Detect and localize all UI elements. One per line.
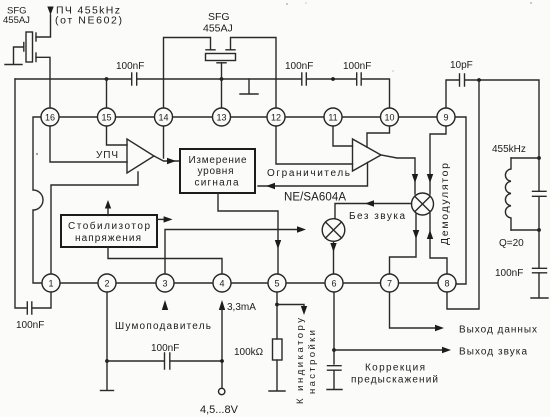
wire stabilizer up output [107,206,109,216]
capacitor C9 100nF right [533,268,547,273]
svg-text:14: 14 [158,113,168,123]
op-amp A1 УПЧ triangle [127,139,154,173]
wire pin15 to IF amp input [107,126,128,145]
filter Z1 right top electrode [35,33,37,41]
junction dot pin15 rail [105,77,109,81]
scan speck [530,2,532,4]
svg-text:7: 7 [387,279,392,289]
svg-text:Ограничитель: Ограничитель [267,168,350,179]
wire 10pF node down to pin8 [447,80,479,309]
svg-text:Q=20: Q=20 [499,238,524,249]
svg-text:К индикатору: К индикатору [295,318,306,404]
junction dot 10pF node [477,78,481,82]
svg-text:SFG: SFG [208,11,230,23]
wire pin15 external [106,79,108,108]
capacitor tank C [533,191,547,196]
pin 16 [41,108,59,126]
junction dot filter2 tap [220,77,224,81]
capacitor C6 100nF bottom [165,353,170,369]
junction dot tank top [537,156,541,160]
svg-text:3,3mA: 3,3mA [227,302,256,313]
wire cap C5 to pin1 [33,292,51,308]
ceramic filter Z1 SFG455AJ body [26,32,33,62]
arrowhead down into demod [412,174,418,183]
pin 9 [437,108,455,126]
svg-text:Шумоподавитель: Шумоподавитель [115,321,211,332]
svg-text:сигнала: сигнала [195,178,239,189]
ground pin2 [101,390,114,392]
wire pin6 down [333,292,335,364]
filter Z1 right bottom electrode [35,53,37,62]
arrowhead supply up to pin4 [219,300,225,310]
chip U1 body outline right edge [455,117,466,284]
ceramic filter Z2 SFG455AJ body [206,54,236,61]
wire demod to pin7 [390,214,417,275]
svg-text:уровня: уровня [198,166,234,177]
svg-text:100nF: 100nF [285,61,313,72]
ground right [531,297,548,299]
wire pin7 data output [390,292,437,328]
svg-text:Стобилизотор: Стобилизотор [68,220,150,232]
capacitor C4 10pF [460,74,465,86]
pin 10 [381,108,399,126]
svg-text:4,5...8V: 4,5...8V [200,404,239,416]
svg-text:11: 11 [328,113,337,123]
wire pin12 to limiter input [276,126,353,164]
filter Z1 left electrode [23,43,25,52]
junction dot pin6 output [332,348,336,352]
svg-text:100nF: 100nF [343,61,371,72]
svg-text:455AJ: 455AJ [3,15,30,26]
wire bottom rail segment 2 [171,360,223,362]
svg-text:12: 12 [271,113,281,123]
scan speck [305,2,307,4]
svg-text:Без звука: Без звука [349,211,405,222]
arrowhead down to pin7 [413,230,419,239]
pin 15 [98,108,116,126]
pin 6 [325,274,343,292]
junction dot supply rail [220,359,224,363]
wire Z1 ground lead [14,47,24,64]
wire audio output [334,349,443,351]
arrowhead down to pin6 [330,243,336,252]
wire limiter feedback to RSSI box [258,163,368,187]
wire top rail segment 3 [307,78,356,80]
wire demod to mute mixer [335,204,412,220]
pin 5 [268,274,286,292]
arrowhead data output [435,325,444,331]
pin 14 [155,108,173,126]
svg-text:10: 10 [384,113,394,123]
svg-text:9: 9 [443,113,448,123]
arrowhead down indicator [301,306,307,315]
wire Z1 output to pin16 [36,57,50,108]
arrowhead left into RSSI box [266,183,275,189]
wire amp output to RSSI box [154,156,180,161]
pin 12 [267,108,285,126]
svg-text:УПЧ: УПЧ [96,150,118,161]
arrowhead up from stabilizer [105,200,111,209]
ground Z1 [5,64,22,66]
capacitor C7 deemphasis [328,366,342,371]
pin 13 [213,108,231,126]
junction dot tank bottom [537,228,541,232]
ground resistor [269,390,285,392]
wire limiter output to demodulator [381,155,415,194]
svg-text:8: 8 [444,279,449,289]
scan speck [392,70,394,72]
wire pin3 to mute mixer [165,230,298,274]
pin 8 [438,274,456,292]
chip U1 body outline top edge [41,116,455,118]
arrowhead down to pin5 [275,240,281,249]
pin 4 [213,274,231,292]
svg-text:Выход данных: Выход данных [459,325,537,336]
inductor L1 coil [505,158,511,230]
svg-text:16: 16 [45,113,55,123]
svg-text:2: 2 [104,279,109,289]
block stabilizer Стабилизатор напряжения box [61,215,157,247]
wire pin9 to 10pF [446,80,459,108]
wire pin4 to supply terminal [221,310,223,388]
svg-text:100nF: 100nF [151,343,179,354]
svg-text:предыскажений: предыскажений [351,375,438,386]
svg-text:Выход звука: Выход звука [459,347,527,358]
block RSSI Измерение уровня сигнала box [180,149,255,193]
junction dot pin11 rail [331,77,335,81]
wire tank top [511,157,539,159]
ground pin6 [327,389,342,391]
wire 100nF to ground [538,273,540,297]
supply terminal circle [219,388,225,394]
wire stabilizer right output [157,218,164,220]
wire Z1 input from ПЧ [36,15,51,37]
svg-text:(от NE602): (от NE602) [55,15,122,27]
wire pin5 down to resistor [276,292,278,339]
filter Z2 top left electrode [206,49,215,51]
wire 10pF to tank top [465,80,539,158]
wire left rail from top rail to bottom cap [15,79,26,308]
wire tank bottom [511,229,539,231]
svg-text:100nF: 100nF [495,268,523,279]
pin 3 [156,274,174,292]
ground stub top middle [248,79,250,93]
pin 7 [381,274,399,292]
wire resistor to ground [276,360,278,390]
mixer demodulator circle [412,193,434,215]
svg-text:100nF: 100nF [16,320,44,331]
svg-text:455kHz: 455kHz [492,144,526,155]
svg-text:5: 5 [274,279,279,289]
wire Z2 output to pin12 [231,38,277,109]
wire tank cap branch [538,158,540,230]
svg-text:455AJ: 455AJ [203,23,233,35]
wire top rail segment 4 to pin10 [362,79,390,108]
wire top rail segment 2 [138,78,302,80]
op-amp A2 limiter triangle [353,139,382,171]
scan speck [286,3,288,5]
svg-text:100kΩ: 100kΩ [234,347,264,358]
resistor R1 100k body [273,339,283,360]
svg-text:15: 15 [101,113,111,123]
chip U1 NE/SA604A body outline left edge with notch [33,117,43,283]
wire pin14 to amp output node [163,126,165,158]
svg-text:6: 6 [331,279,336,289]
capacitor C2 100nF [302,73,307,85]
capacitor C3 100nF [357,73,362,85]
svg-text:Коррекция: Коррекция [365,363,425,374]
svg-text:10pF: 10pF [450,60,473,71]
wire pin16 to IF amp input [50,126,127,162]
filter Z2 bottom electrode [217,62,226,64]
mixer demodulator X [415,196,431,212]
svg-text:1: 1 [48,279,53,289]
wire pin11 to limiter input [333,126,353,146]
pin 1 [42,274,60,292]
wire pin2 to ground [106,292,108,390]
wire tank to 100nF [538,230,540,268]
wire pin1 to IF amp bottom [51,172,138,274]
ground top middle bar [240,93,258,95]
arrowhead left on mute wire [365,200,374,206]
wire indicator branch [277,305,304,308]
svg-text:Демодулятор: Демодулятор [439,163,451,245]
svg-text:NE/SA604A: NE/SA604A [284,192,346,204]
mixer mute circle [322,219,345,242]
arrowhead up into demod [427,230,433,239]
arrowhead squelch up to pin3 [162,300,168,310]
wire RSSI output to pin5 [218,193,278,273]
arrowhead down into demod right [427,174,433,183]
arrowhead right to mute mixer [297,226,306,232]
svg-text:напряжения: напряжения [75,233,141,244]
wire pin10 to limiter top [367,126,390,147]
wire Z2 input from pin14 [164,38,211,109]
scan speck [36,153,38,155]
mixer mute X [326,222,342,238]
wire Z2 tap to pin13 [221,63,223,108]
svg-text:100nF: 100nF [116,61,144,72]
svg-text:3: 3 [162,279,167,289]
capacitor C5 100nF pin1 bypass [27,302,32,314]
arrowhead right from stabilizer [164,216,173,222]
arrowhead audio output [442,347,451,353]
wire mute mixer to pin6 [333,241,335,273]
wire pin8 to demod [430,214,447,275]
wire top rail segment 1 [15,78,131,80]
filter Z2 top right electrode [226,49,235,51]
capacitor C1 100nF [132,73,137,85]
wire stabilizer bottom to pin4 [108,247,222,273]
arrowhead ПЧ input down [47,7,53,16]
svg-text:настройки: настройки [307,330,318,394]
chip U1 body outline bottom edge [42,282,456,284]
svg-text:13: 13 [216,113,226,123]
svg-text:Измерение: Измерение [189,155,247,166]
pin 11 [324,108,342,126]
junction dot pin5 indicator [275,303,279,307]
wire bottom rail segment 1 [107,360,164,362]
wire pin9 to demodulator [430,126,446,194]
junction dot pin2 rail [105,359,109,363]
pin 2 [98,274,116,292]
wire C7 to ground [333,371,335,390]
arrowhead into RSSI box [167,158,176,164]
svg-text:4: 4 [219,279,224,289]
